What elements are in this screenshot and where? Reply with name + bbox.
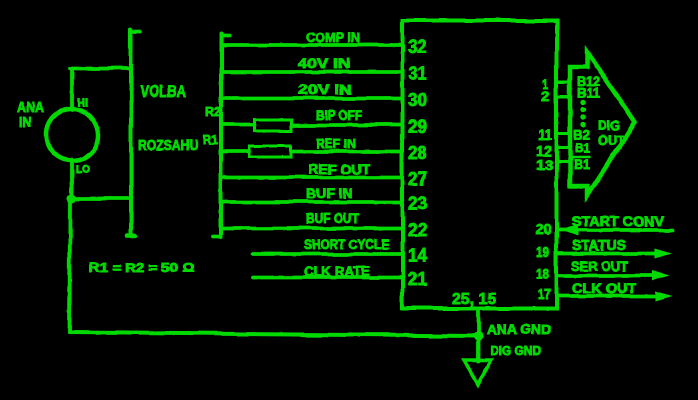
svg-text:DIG: DIG — [598, 117, 620, 133]
svg-text:CLK OUT: CLK OUT — [572, 280, 636, 296]
svg-text:B1: B1 — [575, 141, 590, 156]
svg-text:R1: R1 — [203, 132, 218, 147]
svg-text:21: 21 — [408, 269, 427, 289]
svg-text:HI: HI — [77, 96, 88, 110]
svg-text:ROZSAHU: ROZSAHU — [138, 137, 198, 154]
svg-text:REF IN: REF IN — [316, 136, 356, 151]
svg-text:32: 32 — [408, 37, 427, 57]
svg-text:ANA GND: ANA GND — [487, 321, 551, 337]
svg-text:13: 13 — [536, 157, 554, 174]
svg-text:SER OUT: SER OUT — [571, 258, 628, 274]
svg-text:VOLBA: VOLBA — [140, 83, 186, 101]
svg-text:23: 23 — [408, 194, 427, 214]
svg-text:22: 22 — [408, 220, 427, 240]
svg-text:11: 11 — [538, 127, 552, 144]
svg-text:2: 2 — [541, 88, 549, 104]
svg-text:31: 31 — [408, 64, 427, 84]
svg-text:LO: LO — [76, 164, 90, 176]
svg-text:28: 28 — [408, 143, 427, 163]
svg-text:B1: B1 — [574, 156, 590, 172]
svg-text:CLK RATE: CLK RATE — [304, 263, 370, 279]
svg-text:14: 14 — [408, 246, 427, 266]
svg-text:OUT: OUT — [598, 132, 625, 148]
svg-text:SHORT CYCLE: SHORT CYCLE — [304, 236, 389, 252]
svg-text:B11: B11 — [577, 85, 600, 101]
svg-text:R1 = R2 = 50 Ω: R1 = R2 = 50 Ω — [89, 260, 194, 275]
svg-text:DIG GND: DIG GND — [490, 343, 541, 358]
svg-text:27: 27 — [408, 169, 427, 189]
svg-text:17: 17 — [538, 286, 551, 303]
svg-text:COMP IN: COMP IN — [306, 29, 360, 45]
svg-text:19: 19 — [536, 244, 549, 261]
svg-text:BUF OUT: BUF OUT — [306, 210, 359, 226]
svg-text:REF OUT: REF OUT — [308, 161, 370, 177]
svg-text:IN: IN — [19, 114, 31, 131]
svg-text:R2: R2 — [205, 104, 221, 119]
svg-text:STATUS: STATUS — [572, 237, 626, 254]
svg-text:29: 29 — [408, 117, 427, 137]
svg-text:30: 30 — [408, 90, 427, 110]
svg-text:40V IN: 40V IN — [298, 55, 350, 71]
svg-text:20: 20 — [536, 221, 551, 238]
svg-text:20V IN: 20V IN — [298, 81, 352, 97]
svg-text:BIP OFF: BIP OFF — [316, 107, 362, 123]
svg-text:BUF IN: BUF IN — [306, 185, 353, 201]
svg-text:25, 15: 25, 15 — [452, 291, 496, 308]
svg-text:START CONV: START CONV — [572, 213, 665, 229]
svg-text:18: 18 — [536, 266, 549, 283]
